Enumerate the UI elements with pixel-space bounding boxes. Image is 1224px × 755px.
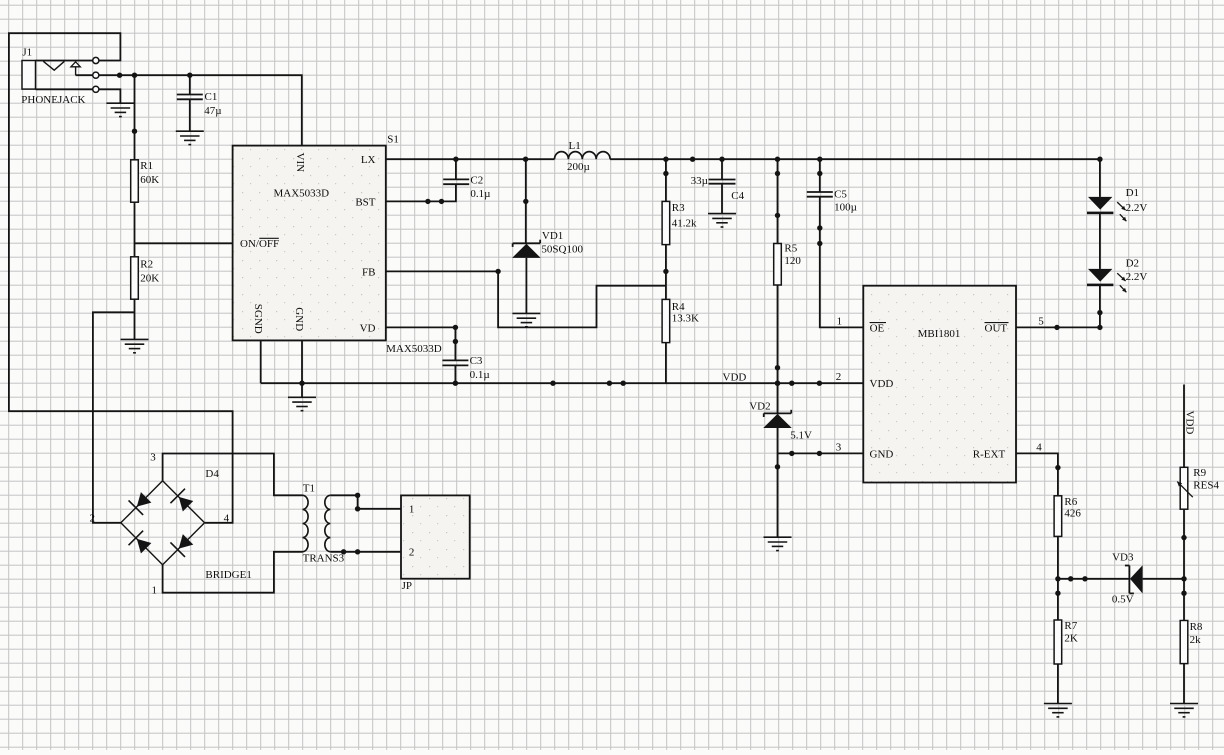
svg-text:2.2V: 2.2V xyxy=(1126,271,1148,283)
svg-text:D2: D2 xyxy=(1126,258,1139,270)
svg-text:OE: OE xyxy=(870,322,885,334)
svg-text:0.5V: 0.5V xyxy=(1112,594,1134,606)
svg-text:1: 1 xyxy=(837,316,843,328)
svg-text:GND: GND xyxy=(870,449,894,461)
svg-text:D4: D4 xyxy=(205,468,219,480)
svg-text:4: 4 xyxy=(1036,442,1042,454)
svg-text:OUT: OUT xyxy=(985,322,1008,334)
svg-text:J1: J1 xyxy=(22,47,32,59)
svg-text:C3: C3 xyxy=(470,355,483,367)
svg-text:R6: R6 xyxy=(1064,496,1077,508)
svg-text:R1: R1 xyxy=(140,160,153,172)
svg-text:13.3K: 13.3K xyxy=(672,313,699,325)
svg-text:LX: LX xyxy=(361,154,376,166)
svg-text:5: 5 xyxy=(1038,316,1044,328)
svg-text:2: 2 xyxy=(836,371,842,383)
svg-text:SGND: SGND xyxy=(252,304,264,334)
svg-text:C2: C2 xyxy=(470,174,483,186)
svg-text:R4: R4 xyxy=(672,301,685,313)
svg-text:60K: 60K xyxy=(140,174,159,186)
svg-text:120: 120 xyxy=(784,255,801,267)
svg-text:2K: 2K xyxy=(1064,633,1078,645)
svg-text:VIN: VIN xyxy=(294,153,306,173)
svg-text:RES4: RES4 xyxy=(1193,479,1219,491)
svg-text:1: 1 xyxy=(409,504,415,516)
svg-text:2: 2 xyxy=(409,547,415,559)
svg-text:VDD: VDD xyxy=(723,372,747,384)
svg-text:2k: 2k xyxy=(1190,634,1202,646)
svg-text:VD: VD xyxy=(360,322,376,334)
svg-text:426: 426 xyxy=(1064,508,1081,520)
svg-text:100µ: 100µ xyxy=(834,202,857,214)
svg-text:R-EXT: R-EXT xyxy=(973,449,1006,461)
svg-text:L1: L1 xyxy=(569,140,581,152)
svg-text:MAX5033D: MAX5033D xyxy=(386,343,442,355)
svg-text:PHONEJACK: PHONEJACK xyxy=(21,94,85,106)
svg-text:0.1µ: 0.1µ xyxy=(470,188,490,200)
svg-text:BRIDGE1: BRIDGE1 xyxy=(205,569,251,581)
svg-text:MAX5033D: MAX5033D xyxy=(274,188,330,200)
svg-text:ON/OFF: ON/OFF xyxy=(240,238,279,250)
svg-text:FB: FB xyxy=(362,266,375,278)
svg-text:S1: S1 xyxy=(387,133,399,145)
svg-text:BST: BST xyxy=(355,196,375,208)
svg-text:R3: R3 xyxy=(672,202,685,214)
svg-text:VDD: VDD xyxy=(870,378,894,390)
svg-text:C1: C1 xyxy=(205,91,218,103)
svg-text:JP: JP xyxy=(402,580,412,592)
svg-text:20K: 20K xyxy=(140,272,159,284)
svg-text:50SQ100: 50SQ100 xyxy=(541,244,583,256)
svg-text:VDD: VDD xyxy=(1184,411,1196,435)
svg-text:0.1µ: 0.1µ xyxy=(470,369,490,381)
svg-text:3: 3 xyxy=(150,451,156,463)
svg-text:R2: R2 xyxy=(140,258,153,270)
svg-text:VD2: VD2 xyxy=(749,400,770,412)
svg-text:R8: R8 xyxy=(1190,621,1203,633)
svg-text:D1: D1 xyxy=(1126,187,1139,199)
svg-text:C5: C5 xyxy=(834,188,847,200)
svg-text:1: 1 xyxy=(152,584,158,596)
svg-text:3: 3 xyxy=(836,442,842,454)
svg-text:2: 2 xyxy=(90,513,96,525)
svg-text:R9: R9 xyxy=(1193,467,1206,479)
svg-text:R5: R5 xyxy=(784,243,797,255)
svg-text:VD1: VD1 xyxy=(542,230,563,242)
svg-text:VD3: VD3 xyxy=(1112,551,1134,563)
svg-text:33µ: 33µ xyxy=(691,175,708,187)
svg-text:41.2k: 41.2k xyxy=(672,218,697,230)
svg-text:4: 4 xyxy=(224,513,230,525)
svg-text:C4: C4 xyxy=(731,190,744,202)
svg-text:R7: R7 xyxy=(1064,620,1077,632)
svg-text:GND: GND xyxy=(293,307,305,331)
svg-text:5.1V: 5.1V xyxy=(790,429,812,441)
svg-text:47µ: 47µ xyxy=(204,105,221,117)
svg-text:MBI1801: MBI1801 xyxy=(918,328,961,340)
svg-text:200µ: 200µ xyxy=(567,161,590,173)
svg-text:2.2V: 2.2V xyxy=(1126,202,1148,214)
svg-text:TRANS3: TRANS3 xyxy=(303,553,345,565)
svg-text:T1: T1 xyxy=(303,482,315,494)
